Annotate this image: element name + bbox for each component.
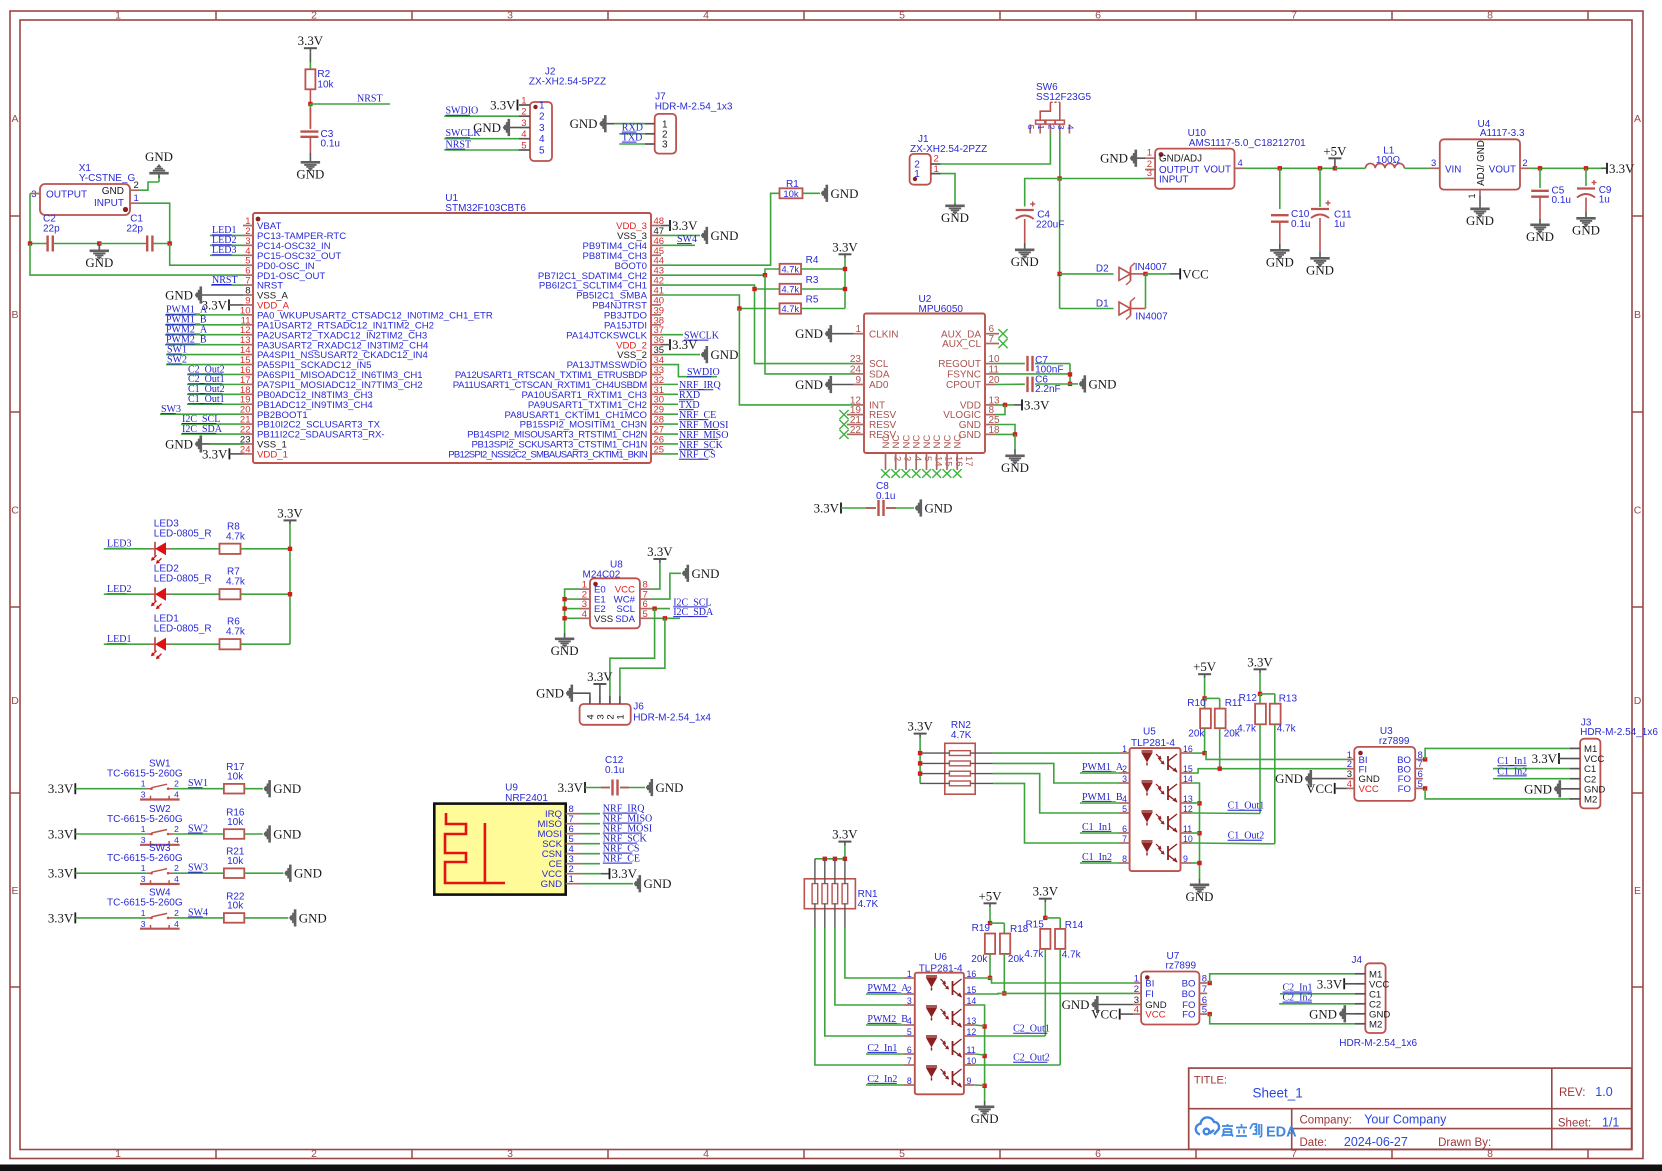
svg-text:E: E [11,885,18,897]
svg-text:J6: J6 [633,702,644,713]
svg-text:1: 1 [907,969,912,979]
svg-text:rz7899: rz7899 [1379,736,1410,747]
svg-text:4: 4 [174,919,179,929]
svg-text:SS12F23G5: SS12F23G5 [1036,92,1091,103]
svg-text:7: 7 [1122,834,1127,844]
svg-text:1: 1 [1147,148,1152,159]
svg-text:GND: GND [1001,461,1029,475]
svg-text:3: 3 [1431,158,1436,169]
svg-text:3: 3 [539,123,545,134]
svg-text:IN4007: IN4007 [1135,262,1168,273]
svg-text:8: 8 [1122,854,1127,864]
svg-text:4: 4 [703,1148,709,1160]
svg-text:ZX-XH2.54-5PZZ: ZX-XH2.54-5PZZ [529,77,606,88]
svg-text:GND: GND [711,348,739,362]
svg-text:1: 1 [539,101,545,112]
svg-text:GND: GND [1524,782,1552,796]
svg-text:4.7k: 4.7k [226,531,246,542]
svg-text:7: 7 [1202,984,1207,995]
svg-text:1: 1 [141,908,146,918]
svg-text:8: 8 [1202,974,1207,985]
svg-text:3.3V: 3.3V [832,240,858,254]
svg-text:7: 7 [1291,10,1297,22]
svg-text:EDA: EDA [1266,1125,1297,1141]
svg-text:2: 2 [1522,158,1527,169]
svg-text:3.3V: 3.3V [587,670,613,684]
svg-text:U5: U5 [1143,726,1156,737]
svg-text:14: 14 [933,456,944,467]
svg-text:M2: M2 [1369,1019,1382,1030]
svg-text:VOUT: VOUT [1204,164,1231,175]
svg-text:220uF: 220uF [1036,219,1064,230]
svg-text:3.3V: 3.3V [1247,655,1273,669]
svg-text:TITLE:: TITLE: [1194,1075,1227,1087]
svg-text:10k: 10k [227,817,244,828]
svg-text:3.3V: 3.3V [48,782,74,796]
svg-text:4: 4 [1122,794,1127,804]
svg-text:3: 3 [662,140,668,151]
svg-text:GND: GND [541,879,562,890]
svg-text:GND: GND [1100,152,1128,166]
svg-text:3.3V: 3.3V [672,219,698,233]
svg-text:4.7k: 4.7k [226,627,246,638]
svg-text:BO: BO [1182,979,1196,990]
svg-text:3.3V: 3.3V [48,828,74,842]
svg-text:3.3V: 3.3V [48,911,74,925]
svg-text:4: 4 [1347,779,1352,790]
svg-text:1: 1 [1036,125,1046,130]
svg-text:GND: GND [273,828,301,842]
svg-text:R2: R2 [317,69,330,80]
svg-text:3: 3 [141,790,146,800]
svg-text:GND: GND [1306,264,1334,278]
svg-text:4: 4 [174,790,179,800]
svg-text:R14: R14 [1065,920,1084,931]
svg-text:U6: U6 [934,952,947,963]
svg-text:+5V: +5V [1323,144,1347,158]
svg-text:NRF2401: NRF2401 [505,793,548,804]
svg-text:+5V: +5V [1193,660,1217,674]
svg-text:0.1u: 0.1u [1552,195,1571,206]
svg-text:5: 5 [539,146,545,157]
svg-text:1: 1 [615,714,626,719]
svg-text:5: 5 [907,1027,912,1037]
svg-text:13: 13 [1183,794,1193,804]
svg-text:10k: 10k [227,901,244,912]
svg-text:1: 1 [1122,744,1127,754]
svg-text:R13: R13 [1279,694,1298,705]
svg-text:CLKIN: CLKIN [869,329,898,340]
svg-text:3: 3 [521,118,526,129]
svg-text:LED-0805_R: LED-0805_R [154,528,212,539]
svg-text:3.3V: 3.3V [1033,885,1059,899]
svg-text:2: 2 [1046,125,1056,130]
svg-text:3: 3 [1147,168,1152,179]
svg-text:3.3V: 3.3V [1024,398,1050,412]
svg-text:J4: J4 [1352,955,1363,966]
svg-text:9: 9 [967,1076,972,1086]
svg-text:VSS: VSS [594,614,613,625]
svg-text:VCC: VCC [1359,784,1379,795]
svg-text:Y-CSTNE_G: Y-CSTNE_G [79,173,136,184]
svg-text:GND: GND [1089,377,1117,391]
svg-text:2: 2 [892,456,903,461]
svg-text:3.3V: 3.3V [814,502,840,516]
svg-text:2: 2 [934,154,939,165]
svg-text:4.7k: 4.7k [782,285,800,295]
svg-text:16: 16 [1183,744,1193,754]
svg-text:3.3V: 3.3V [647,545,673,559]
svg-text:3.3V: 3.3V [298,34,324,48]
svg-text:FO: FO [1398,784,1411,795]
svg-text:5: 5 [1418,779,1423,790]
svg-text:R12: R12 [1239,693,1258,704]
svg-text:5: 5 [1122,804,1127,814]
svg-text:22p: 22p [43,224,60,235]
svg-text:10k: 10k [227,856,244,867]
svg-text:GND: GND [1011,255,1039,269]
svg-text:GND/ADJ: GND/ADJ [1159,154,1202,165]
svg-text:GND: GND [1526,230,1554,244]
svg-text:B: B [1634,309,1641,321]
svg-text:GND: GND [831,187,859,201]
svg-text:1: 1 [141,863,146,873]
svg-text:3: 3 [907,996,912,1006]
svg-text:1/1: 1/1 [1602,1116,1619,1130]
svg-text:AMS1117-5.0_C18212701: AMS1117-5.0_C18212701 [1189,138,1306,149]
svg-text:4.7k: 4.7k [1237,724,1257,735]
svg-text:3.3V: 3.3V [277,506,303,520]
svg-text:1: 1 [1467,193,1477,198]
svg-text:rz7899: rz7899 [1166,960,1197,971]
svg-text:3.3V: 3.3V [612,867,638,881]
svg-text:20k: 20k [1008,954,1025,965]
svg-text:10k: 10k [227,772,244,783]
svg-text:HDR-M-2.54_1x6: HDR-M-2.54_1x6 [1339,1038,1417,1049]
svg-text:GND: GND [795,378,823,392]
svg-text:1: 1 [934,164,939,175]
svg-text:AD0: AD0 [869,380,889,391]
svg-text:8: 8 [907,1076,912,1086]
svg-text:INPUT: INPUT [1159,174,1188,185]
svg-text:GND: GND [85,256,113,270]
svg-text:Sheet_1: Sheet_1 [1253,1086,1303,1101]
svg-text:5: 5 [643,609,648,620]
svg-text:GND: GND [941,211,969,225]
svg-text:2: 2 [539,112,545,123]
svg-text:1: 1 [1134,974,1139,985]
svg-text:2: 2 [174,824,179,834]
svg-text:3: 3 [141,835,146,845]
svg-text:GND: GND [1466,214,1494,228]
svg-text:Drawn By:: Drawn By: [1438,1137,1491,1149]
svg-text:GND: GND [102,186,124,197]
svg-text:REV:: REV: [1559,1087,1585,1099]
svg-text:1: 1 [855,324,861,335]
svg-text:2: 2 [1134,984,1139,995]
svg-text:GND: GND [273,782,301,796]
svg-text:BO: BO [1182,989,1196,1000]
svg-text:AUX_CL: AUX_CL [942,339,981,350]
svg-text:1.0: 1.0 [1595,1085,1612,1099]
svg-text:2: 2 [174,779,179,789]
svg-text:HDR-M-2.54_1x6: HDR-M-2.54_1x6 [1580,727,1658,738]
svg-text:3.3V: 3.3V [832,828,858,842]
svg-text:2: 2 [174,908,179,918]
svg-text:8: 8 [1487,10,1493,22]
svg-text:GND: GND [971,1112,999,1126]
svg-text:E: E [1634,885,1641,897]
svg-text:R5: R5 [806,295,819,306]
svg-text:NRST: NRST [357,94,383,105]
svg-text:10k: 10k [783,189,799,200]
svg-text:M2: M2 [1584,795,1597,806]
svg-text:D1: D1 [1096,299,1109,310]
svg-text:3: 3 [507,1148,513,1160]
svg-text:D2: D2 [1096,264,1109,275]
svg-text:4.7K: 4.7K [951,730,972,741]
svg-text:2: 2 [311,1148,317,1160]
svg-text:4: 4 [521,129,526,140]
svg-text:+5V: +5V [978,889,1002,903]
svg-text:10: 10 [1183,834,1193,844]
svg-text:15: 15 [1183,764,1193,774]
svg-text:3.3V: 3.3V [907,720,933,734]
svg-text:3: 3 [1056,125,1066,130]
svg-text:VCC: VCC [1145,1010,1165,1021]
svg-text:HDR-M-2.54_1x3: HDR-M-2.54_1x3 [655,102,733,113]
svg-text:GND: GND [536,687,564,701]
svg-text:6: 6 [1095,10,1101,22]
svg-text:A1117-3.3: A1117-3.3 [1480,128,1525,139]
svg-text:1: 1 [521,96,526,107]
svg-text:GND: GND [1275,772,1303,786]
svg-text:R19: R19 [972,923,991,934]
svg-text:3: 3 [507,10,513,22]
svg-text:9: 9 [855,375,861,386]
svg-text:VIN: VIN [1445,164,1461,175]
svg-text:3.3V: 3.3V [1532,752,1558,766]
svg-text:5: 5 [521,141,526,152]
svg-text:GND: GND [1309,1007,1337,1021]
svg-text:4.7k: 4.7k [226,577,246,588]
svg-text:3.3V: 3.3V [202,447,228,461]
svg-text:C: C [11,505,19,517]
svg-text:FI: FI [1145,989,1154,1000]
svg-text:PB12SPI2_NSSI2C2_SMBAUSART3_CK: PB12SPI2_NSSI2C2_SMBAUSART3_CKTIM1_BKIN [448,449,648,460]
svg-text:4: 4 [912,456,923,461]
svg-text:VDD_1: VDD_1 [257,449,288,460]
svg-text:R3: R3 [806,275,819,286]
svg-text:GND: GND [656,781,684,795]
svg-text:R10: R10 [1187,698,1206,709]
svg-text:24: 24 [850,364,862,375]
svg-text:2.2nF: 2.2nF [1035,384,1061,395]
svg-text:0.1u: 0.1u [321,139,340,150]
svg-text:6: 6 [1122,824,1127,834]
svg-text:4.7k: 4.7k [1024,949,1044,960]
svg-text:20k: 20k [1188,729,1205,740]
svg-text:7: 7 [989,334,995,345]
svg-text:GND: GND [795,327,823,341]
svg-text:1: 1 [141,779,146,789]
svg-text:GND: GND [294,867,322,881]
svg-text:2: 2 [174,863,179,873]
svg-text:LED-0805_R: LED-0805_R [154,624,212,635]
svg-text:BI: BI [1145,979,1154,990]
svg-text:D: D [11,695,19,707]
svg-text:12: 12 [1183,804,1193,814]
svg-text:GND: GND [711,229,739,243]
svg-text:3.3V: 3.3V [1609,162,1635,176]
svg-text:VOUT: VOUT [1489,164,1516,175]
svg-text:A: A [1634,113,1641,125]
svg-text:1: 1 [914,169,920,180]
svg-text:HDR-M-2.54_1x4: HDR-M-2.54_1x4 [633,713,711,724]
svg-text:22: 22 [850,425,862,436]
svg-text:4: 4 [1238,158,1243,169]
svg-text:OUTPUT: OUTPUT [46,190,87,201]
svg-text:4: 4 [703,10,709,22]
svg-text:FO: FO [1182,1010,1195,1021]
svg-text:4: 4 [174,874,179,884]
svg-text:INPUT: INPUT [94,198,124,209]
svg-text:1u: 1u [1599,194,1610,205]
svg-text:10k: 10k [317,80,334,91]
svg-text:1u: 1u [1334,219,1345,230]
svg-text:GND: GND [165,437,193,451]
svg-text:11: 11 [1183,824,1192,834]
svg-text:4.7k: 4.7k [1277,724,1297,735]
svg-text:GND: GND [692,567,720,581]
svg-text:NC: NC [953,435,964,449]
svg-text:VCC: VCC [1306,782,1333,796]
svg-text:0.1u: 0.1u [605,765,624,776]
svg-text:Your Company: Your Company [1364,1113,1447,1127]
svg-text:GND: GND [1266,256,1294,270]
svg-text:15: 15 [943,456,954,467]
svg-text:20k: 20k [971,954,988,965]
svg-text:IN4007: IN4007 [1135,312,1168,323]
svg-text:3: 3 [1122,774,1127,784]
svg-text:16: 16 [953,456,964,467]
svg-text:14: 14 [1183,774,1193,784]
svg-text:4: 4 [174,835,179,845]
svg-text:6: 6 [907,1045,912,1055]
svg-text:5: 5 [899,1148,905,1160]
svg-text:5: 5 [1026,125,1036,130]
svg-text:GND: GND [299,911,327,925]
svg-text:4: 4 [1134,1005,1139,1016]
svg-text:3.3V: 3.3V [558,781,584,795]
svg-text:R4: R4 [806,255,819,266]
svg-text:3: 3 [902,456,913,461]
svg-text:GND: GND [1062,998,1090,1012]
svg-text:1: 1 [115,1148,121,1160]
svg-text:GND: GND [570,117,598,131]
svg-text:22p: 22p [126,224,143,235]
svg-text:3: 3 [141,919,146,929]
svg-text:GND: GND [644,877,672,891]
svg-text:2024-06-27: 2024-06-27 [1344,1135,1408,1149]
svg-text:CPOUT: CPOUT [946,380,981,391]
svg-text:SDA: SDA [615,614,635,625]
svg-text:GND: GND [551,644,579,658]
svg-text:3.3V: 3.3V [48,867,74,881]
svg-text:1: 1 [115,10,121,22]
svg-text:5: 5 [1202,1005,1207,1016]
svg-text:17: 17 [963,456,974,467]
svg-text:GND: GND [925,502,953,516]
svg-text:D: D [1634,695,1642,707]
svg-text:GND: GND [1572,224,1600,238]
svg-text:9: 9 [1183,854,1188,864]
svg-text:ADJ/ GND: ADJ/ GND [1476,140,1487,186]
svg-text:VCC: VCC [1091,1008,1118,1022]
svg-text:4: 4 [539,134,545,145]
svg-text:4: 4 [582,609,587,620]
svg-text:6: 6 [1095,1148,1101,1160]
svg-text:VCC: VCC [1182,267,1209,281]
svg-text:B: B [11,309,18,321]
svg-text:11: 11 [967,1045,976,1055]
svg-text:4.7k: 4.7k [782,265,800,275]
svg-text:Company:: Company: [1300,1115,1352,1127]
svg-text:4.7K: 4.7K [858,899,879,910]
svg-text:2: 2 [311,10,317,22]
svg-text:3.3V: 3.3V [490,99,516,113]
svg-text:5: 5 [899,10,905,22]
svg-text:4: 4 [1065,125,1075,130]
svg-text:3: 3 [31,189,36,200]
svg-text:GND: GND [145,150,173,164]
svg-text:SDA: SDA [869,370,890,381]
svg-text:GND: GND [165,289,193,303]
svg-text:FSYNC: FSYNC [947,370,981,381]
svg-text:R15: R15 [1025,920,1044,931]
svg-text:Sheet:: Sheet: [1558,1118,1591,1130]
svg-text:A: A [11,113,18,125]
svg-text:2: 2 [521,107,526,118]
svg-text:1: 1 [141,824,146,834]
svg-text:Date:: Date: [1300,1137,1328,1149]
svg-text:GND: GND [296,168,324,182]
svg-text:LED-0805_R: LED-0805_R [154,574,212,585]
svg-text:3.3V: 3.3V [1317,977,1343,991]
svg-text:4.7k: 4.7k [1062,950,1082,961]
svg-text:5: 5 [922,456,933,461]
svg-text:7: 7 [907,1056,912,1066]
svg-text:0.1u: 0.1u [1291,219,1310,230]
svg-text:3: 3 [141,874,146,884]
svg-text:4.7k: 4.7k [782,304,800,314]
svg-text:GND: GND [1186,890,1214,904]
svg-text:C: C [1634,505,1642,517]
